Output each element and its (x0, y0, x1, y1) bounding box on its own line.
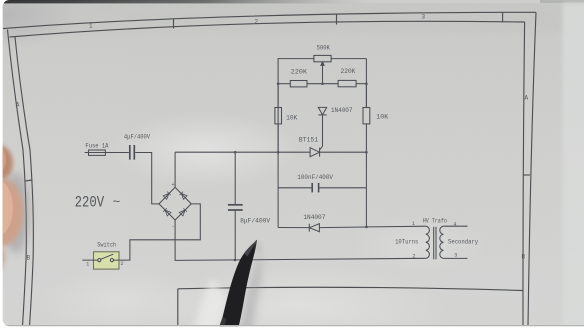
bridge rectifier B1 (159, 182, 191, 230)
capacitor C1 4uF/400V (124, 134, 151, 160)
pen shadow (238, 250, 262, 335)
wire osc right rail top (365, 59, 367, 108)
subtle shading: top darker (3, 3, 584, 33)
resistor R1 220K left (278, 69, 338, 87)
junction C2 top (234, 151, 237, 154)
capacitor C2 8uF/400V (228, 152, 271, 260)
diode D2 1N4007 flyback (278, 214, 366, 232)
junction C2 bottom (234, 259, 237, 262)
transformer T1 HV Trafo (395, 217, 478, 259)
wire right rail lower (365, 152, 367, 227)
bottom paper edge shadow (3, 325, 584, 327)
glare top-center-left (110, 112, 300, 188)
wire bridge minus down and DC- rail to transformer (175, 220, 426, 260)
wire from C1 down to bridge AC1 (135, 153, 159, 204)
wire left rail lower (277, 152, 279, 227)
wire DC+ rail (175, 151, 278, 153)
wire live stub to fuse (85, 152, 89, 154)
pen (216, 240, 257, 335)
paper background (0, 0, 1, 1)
thyristor Q1 BT151 (278, 137, 366, 157)
soft dark vignette top-left (0, 0, 75, 50)
fuse F1 Fuse 1A (85, 143, 128, 156)
wire bridge AC2 to switch (119, 204, 200, 260)
junction left rail 220K row (277, 82, 280, 85)
capacitor C3 100nF/400V (278, 174, 366, 192)
junction cathode rail (365, 151, 368, 154)
wire bridge plus up to DC+ rail (174, 152, 176, 187)
potentiometer P1 500K (314, 44, 367, 83)
junction anode rail (277, 151, 280, 154)
resistor R2 220K right (338, 68, 366, 87)
light wedge left of pen (192, 278, 227, 335)
fingers on left edge (0, 145, 30, 272)
resistor R3 10K left (275, 84, 298, 153)
lighter band right edge of photo (563, 3, 584, 327)
wire to transformer primary (366, 225, 425, 228)
switch S1 (82, 241, 123, 269)
dark table strip at very top of video (0, 0, 1, 1)
junction diode row right rail (365, 226, 368, 229)
diode D1 1N4007 trigger (318, 107, 352, 146)
junction right rail 220K row (365, 82, 368, 85)
wire osc left rail top (278, 59, 314, 153)
resistor R4 10K right (363, 84, 389, 153)
junction middle of 220K row (321, 82, 324, 85)
node 220V mains label (75, 194, 121, 212)
